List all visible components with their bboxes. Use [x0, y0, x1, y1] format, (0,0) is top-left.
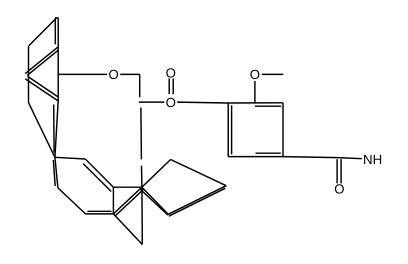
- bond R1-E1 double companion: [27, 50, 58, 75]
- bond R1-R2 vertical: [57, 47, 59, 101]
- bond Oether-CH2: [120, 73, 140, 75]
- bond CH2 vertical: [139, 74, 141, 97]
- bond R1-E1 double main: [25, 47, 58, 74]
- bond RVh-S: [113, 186, 141, 188]
- svg-text:NH: NH: [363, 152, 382, 167]
- bond C=O carbonyl line a: [168, 78, 170, 94]
- bond T-R1 double line b: [57, 18, 59, 47]
- benzene1 edge TRh-RVh: [85, 159, 113, 187]
- bond Omethoxy-ring: [254, 81, 256, 103]
- bond T-R1 double line a: [54, 18, 56, 44]
- benzene1 left double companion: [53, 160, 55, 186]
- benzene2 left double companion: [231, 105, 233, 154]
- benzene1 top edge B2-TRh: [55, 157, 85, 159]
- svg-text:O: O: [334, 181, 344, 196]
- svg-text:O: O: [166, 65, 176, 80]
- bond R2-B2 double main: [55, 101, 58, 157]
- bond ring-amideC: [283, 157, 338, 158]
- benzene1 right edge RVh-BRh: [112, 187, 114, 214]
- svg-text:O: O: [166, 95, 176, 110]
- bond amide C=O line a: [336, 159, 338, 183]
- bond C=O carbonyl line b: [172, 78, 174, 94]
- bond Oester-ring: [177, 101, 228, 104]
- wire top apex tick: [55, 17, 59, 19]
- benzene1 bottom edge BLh-BRh: [86, 213, 114, 215]
- benzene1 edge BLh-LVh: [58, 188, 86, 214]
- benzene1 TRh-RVh double companion: [83, 164, 111, 192]
- benzene2 top double companion: [255, 105, 281, 107]
- bond S-BRh double companion: [116, 189, 144, 216]
- bond amide C=O line b: [340, 159, 342, 183]
- benzene2 right edge: [282, 103, 284, 157]
- bond Omethoxy-methyl: [262, 73, 284, 75]
- bond S-W vertical: [141, 187, 143, 244]
- svg-text:O: O: [108, 67, 118, 82]
- benzene2 bottom edge: [228, 156, 283, 158]
- bond BRh-W: [113, 214, 142, 245]
- benzene1 bottom double companion: [88, 210, 112, 212]
- bond long vertical upper: [140, 108, 143, 160]
- benzene2 left edge: [227, 103, 229, 157]
- benzene2 bottom double companion: [256, 152, 281, 154]
- bond L2-B2: [29, 103, 55, 158]
- bond Kbot-S double companion: [141, 190, 169, 216]
- bond M-Oether: [58, 73, 107, 75]
- bond amideC-NH: [338, 158, 362, 159]
- bond S-BRh double main: [113, 187, 141, 214]
- bond Kbot-S double main: [142, 187, 168, 214]
- bond Ktop-Kright: [171, 160, 227, 186]
- bond L1-L2: [28, 46, 30, 103]
- bond Kright-Kbot double companion: [169, 188, 225, 216]
- bond long vertical lower: [141, 166, 143, 188]
- svg-text:O: O: [250, 67, 260, 82]
- bond T-L1: [29, 18, 56, 46]
- bond E1-R2 double main: [25, 79, 58, 101]
- bond C-Oester: [139, 101, 165, 103]
- benzene2 top edge: [228, 102, 283, 104]
- bond Kright-Kbot double main: [168, 186, 226, 215]
- bond S-Ktop: [142, 160, 171, 188]
- benzene1 left edge LVh-B2: [55, 157, 58, 188]
- bond E1-R2 double companion: [28, 76, 59, 97]
- bond R2-B2 double companion: [53, 105, 55, 153]
